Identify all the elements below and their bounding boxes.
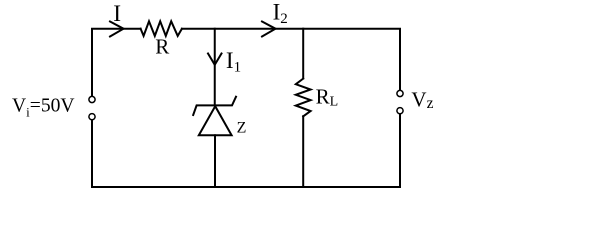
svg-text:RL: RL [316,85,339,110]
arrow current I1 [208,54,222,65]
wire load branch upper [302,29,304,79]
zener diode Z triangle [199,106,232,135]
wire left rail lower segment [91,120,93,187]
wire top rail right segment [182,29,400,90]
arrow current I [110,22,124,37]
resistor R [141,21,182,36]
svg-text:R: R [155,35,169,59]
svg-text:Vz: Vz [411,88,433,113]
wire zener branch lower [214,135,216,187]
svg-text:I1: I1 [226,48,241,75]
terminal circle input bottom [89,114,95,120]
wire load branch lower [302,116,304,187]
svg-text:I2: I2 [273,0,288,27]
svg-text:Vi=50V: Vi=50V [12,96,75,120]
zener diode Z cathode bar [193,97,236,115]
wire right rail lower segment [399,114,401,187]
wire zener branch upper [214,29,216,105]
svg-text:I: I [113,1,121,27]
wire bottom rail [92,186,400,188]
arrow current I2 [262,22,276,37]
terminal circle output bottom [397,108,403,114]
terminal circle output top [397,90,403,96]
svg-text:Z: Z [237,119,247,136]
resistor RL [296,79,311,117]
wire top rail left segment [92,29,141,97]
terminal circle input top [89,96,95,102]
